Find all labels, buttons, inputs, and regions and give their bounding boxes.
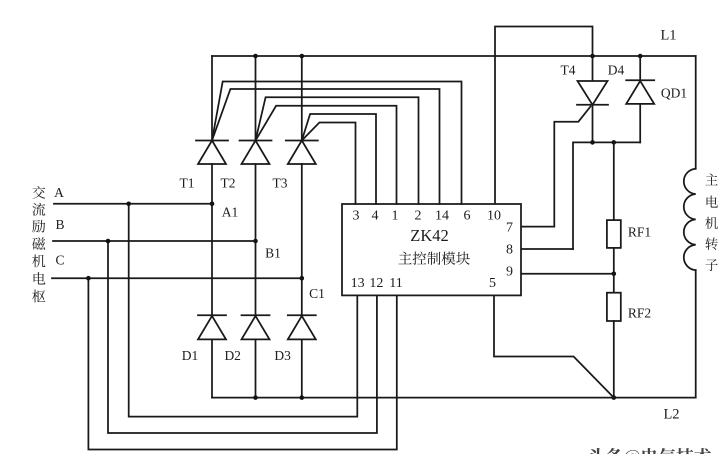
- svg-text:1: 1: [392, 209, 399, 224]
- svg-text:D2: D2: [224, 348, 241, 363]
- svg-text:L1: L1: [660, 28, 676, 44]
- svg-text:6: 6: [464, 209, 471, 224]
- svg-text:B: B: [55, 217, 64, 232]
- svg-text:T1: T1: [180, 176, 195, 191]
- svg-text:D1: D1: [182, 348, 199, 363]
- wire pin 14 to T1 cathode: [212, 89, 440, 204]
- wire rotor bottom drop to L2: [695, 270, 697, 398]
- node phase C tap: [86, 276, 91, 281]
- node D2 on L2: [253, 395, 258, 400]
- node T3 anode on L1: [300, 54, 305, 59]
- svg-text:QD1: QD1: [661, 86, 687, 101]
- op-amp U1 ZK42 module box: [342, 204, 521, 295]
- thyristor T1: [196, 141, 228, 165]
- node RF1 RF2 junction: [612, 272, 617, 277]
- node B1: [253, 239, 258, 244]
- svg-text:L2: L2: [663, 407, 679, 423]
- wire T2 to D2 column: [255, 164, 257, 315]
- label 交流励磁机电枢: [32, 186, 45, 303]
- svg-text:5: 5: [489, 276, 496, 291]
- svg-text:T4: T4: [561, 63, 576, 78]
- wire pin 11 to phase C: [88, 278, 396, 449]
- wire T2 anode riser: [255, 56, 257, 141]
- svg-text:12: 12: [369, 276, 383, 291]
- label 主控制模块: [398, 252, 469, 265]
- wire T4 cathode drop: [592, 105, 594, 143]
- svg-text:3: 3: [353, 209, 360, 224]
- svg-text:4: 4: [372, 209, 379, 224]
- svg-text:T3: T3: [273, 176, 288, 191]
- resistor RF2: [607, 293, 621, 321]
- node RF1 top junction: [612, 140, 617, 145]
- wire T1 to D1 column: [211, 164, 213, 315]
- wire T1 anode riser: [211, 56, 213, 141]
- node T4 branch on L1: [590, 54, 595, 59]
- wire RF1 bottom lead: [613, 248, 615, 274]
- diode D4: [626, 80, 654, 104]
- wire D4 anode drop: [639, 56, 641, 80]
- thyristor T3: [286, 141, 318, 165]
- wire pin 4 to T3 gate: [302, 114, 376, 204]
- wire pin 8 lead: [521, 248, 573, 250]
- svg-text:D4: D4: [608, 63, 625, 78]
- wire pin 9 lead: [521, 273, 614, 275]
- wire RF1 top lead: [613, 142, 615, 220]
- node D3 on L2: [300, 395, 305, 400]
- node T4 cathode junction: [590, 140, 595, 145]
- node QD1 branch on L1: [638, 54, 643, 59]
- svg-text:13: 13: [351, 276, 365, 291]
- svg-text:ZK42: ZK42: [410, 226, 449, 245]
- svg-text:14: 14: [435, 209, 449, 224]
- inductor main motor rotor coil: [684, 169, 696, 270]
- resistor RF1: [607, 220, 621, 248]
- wire RF2 bottom lead: [613, 321, 615, 398]
- svg-text:RF2: RF2: [628, 306, 651, 321]
- wire RF2 top lead: [613, 274, 615, 293]
- svg-text:A: A: [54, 185, 64, 200]
- diode D2: [242, 315, 270, 339]
- svg-text:2: 2: [415, 209, 422, 224]
- svg-text:8: 8: [506, 243, 513, 258]
- phase line B: [53, 240, 256, 242]
- wire L1 right drop to rotor top: [695, 56, 697, 169]
- wire pin 6 to T1 gate: [212, 82, 462, 205]
- phase line C: [52, 277, 302, 279]
- wire D1 to L2: [211, 339, 213, 397]
- wire cathode bus y142: [573, 142, 640, 249]
- label 主电机转子: [705, 174, 718, 271]
- svg-text:D3: D3: [274, 348, 291, 363]
- svg-text:B1: B1: [265, 246, 281, 261]
- wire T4 anode drop: [592, 56, 594, 81]
- thyristor T4: [577, 81, 608, 105]
- wire T3 to D3 column: [301, 164, 303, 315]
- svg-text:T2: T2: [221, 176, 236, 191]
- svg-text:A1: A1: [222, 205, 239, 220]
- svg-text:7: 7: [506, 221, 513, 236]
- wire pin 13 to phase A: [129, 204, 358, 417]
- wire T4 gate to pin 7: [521, 107, 591, 227]
- wire pin 5 to L2: [494, 295, 614, 397]
- node phase A tap: [126, 202, 131, 207]
- node T2 anode on L1: [253, 54, 258, 59]
- thyristor T2: [240, 141, 272, 165]
- wire pin 3 to T3 cathode: [302, 123, 356, 205]
- svg-text:10: 10: [487, 209, 501, 224]
- node RF2 L2 junction: [612, 395, 617, 400]
- wire pin 2 to T2 gate: [256, 97, 419, 204]
- svg-text:11: 11: [389, 276, 402, 291]
- wire T3 anode riser: [301, 56, 303, 141]
- wire L1 top bus: [212, 55, 696, 57]
- wire L2 bottom bus: [212, 397, 696, 399]
- wire D4 cathode drop: [639, 104, 641, 142]
- watermark 头条@电气技术: [589, 448, 711, 454]
- phase line A: [54, 203, 212, 205]
- svg-text:RF1: RF1: [628, 225, 651, 240]
- wire top loop pin10 to T4 anode: [495, 27, 593, 205]
- wire D3 to L2: [301, 339, 303, 397]
- svg-text:C: C: [55, 253, 64, 268]
- node phase B tap: [106, 239, 111, 244]
- wire pin 12 to phase B: [108, 241, 377, 433]
- svg-text:9: 9: [506, 265, 513, 280]
- diode D1: [198, 315, 226, 339]
- node C1: [300, 276, 305, 281]
- diode D3: [288, 315, 316, 339]
- svg-text:C1: C1: [309, 286, 325, 301]
- wire D2 to L2: [255, 339, 257, 397]
- node A1: [210, 202, 215, 207]
- wire pin 1 to T2 cathode: [256, 106, 397, 204]
